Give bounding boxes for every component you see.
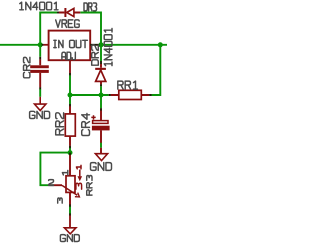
pin overlap C2 [39,57,41,89]
ground under C2 [35,97,46,111]
pin name IN [54,40,63,47]
wire: right vertical to RR1 [152,45,161,95]
resistor RR1 [111,90,150,99]
junction node (101,44.8) [99,42,104,47]
label RR1 [118,81,138,89]
label CR2 (vertical) [24,57,30,77]
junction node (70,95) [68,93,73,98]
label GND (CR4) [91,163,112,171]
diode DR3 [59,8,80,17]
capacitor CR4 (polarized) [91,110,109,154]
pin overlap DR3 left [57,12,59,14]
wire: RR2 top [69,95,71,104]
pot pin3 lead to gnd [69,216,71,228]
junction node (40.2,44.8) [38,42,43,47]
wire: RR2 bottom [69,148,71,153]
pot annotation digit 1 (red) [76,165,81,169]
pin overlap pot [50,153,70,216]
pin name ADJ [62,52,75,60]
label DR2 (vertical) [92,45,99,65]
label DR3 [84,3,97,11]
pin ADJ lead [69,60,71,73]
wire: DR2 bottom [100,86,102,95]
ground under CR4 [95,154,107,161]
junction node (101,95) [99,93,104,98]
wire: ADJ to middle net [69,75,71,95]
label GND (pot) [60,235,79,242]
pot annotation arrow [78,170,83,182]
label RR3 (vertical) [87,176,92,196]
wire: CR4 gnd seg [100,143,102,148]
wire: top net left edge to IN junction [0,44,42,46]
diode DR2 [95,64,106,85]
wire: middle net [70,94,109,96]
label 1N4001 (DR2 value, vertical) [104,28,112,65]
wire: pot pin3 gnd seg [69,207,71,214]
pin IN lead [42,44,44,46]
pin name OUT [70,40,88,47]
capacitor C2 plates [30,59,49,87]
label GND (C2) [30,111,50,118]
wire: DR2 top [100,45,102,61]
label 1N4001 (DR3 value) [20,2,58,10]
pot pin number 3 [58,198,63,203]
voltage regulator VREG box [49,31,91,61]
label CR4 (vertical) [82,114,90,136]
pin OUT lead (net overlap) [90,44,99,46]
pot annotation digit 3 (red) [76,183,82,189]
ground under pot [64,228,76,234]
label RR2 (vertical) [56,113,64,135]
wire: C2 gnd seg [39,89,41,97]
wire: pot wiper loop [40,153,70,186]
pin overlap RR1 [109,94,152,96]
potentiometer RR3 [54,155,80,205]
wire: OUT net to right edge [99,44,167,46]
wire: CR4 top [100,95,102,108]
junction node (160.3,44.8) [158,42,163,47]
pin overlap RR2 [69,104,71,148]
wire: DR3 cathode branch right/down [80,13,101,45]
pin overlap DR2 [100,61,102,86]
pot pin number 1 [62,170,67,174]
label VREG [56,20,79,28]
wire: DR3 anode branch left/down [40,13,57,45]
resistor RR2 [65,106,75,146]
junction node (70,152.6) [68,150,73,155]
wire: C2 top [39,45,41,57]
pin overlap CR4 [100,108,102,111]
pot pin number 2 [49,180,54,186]
